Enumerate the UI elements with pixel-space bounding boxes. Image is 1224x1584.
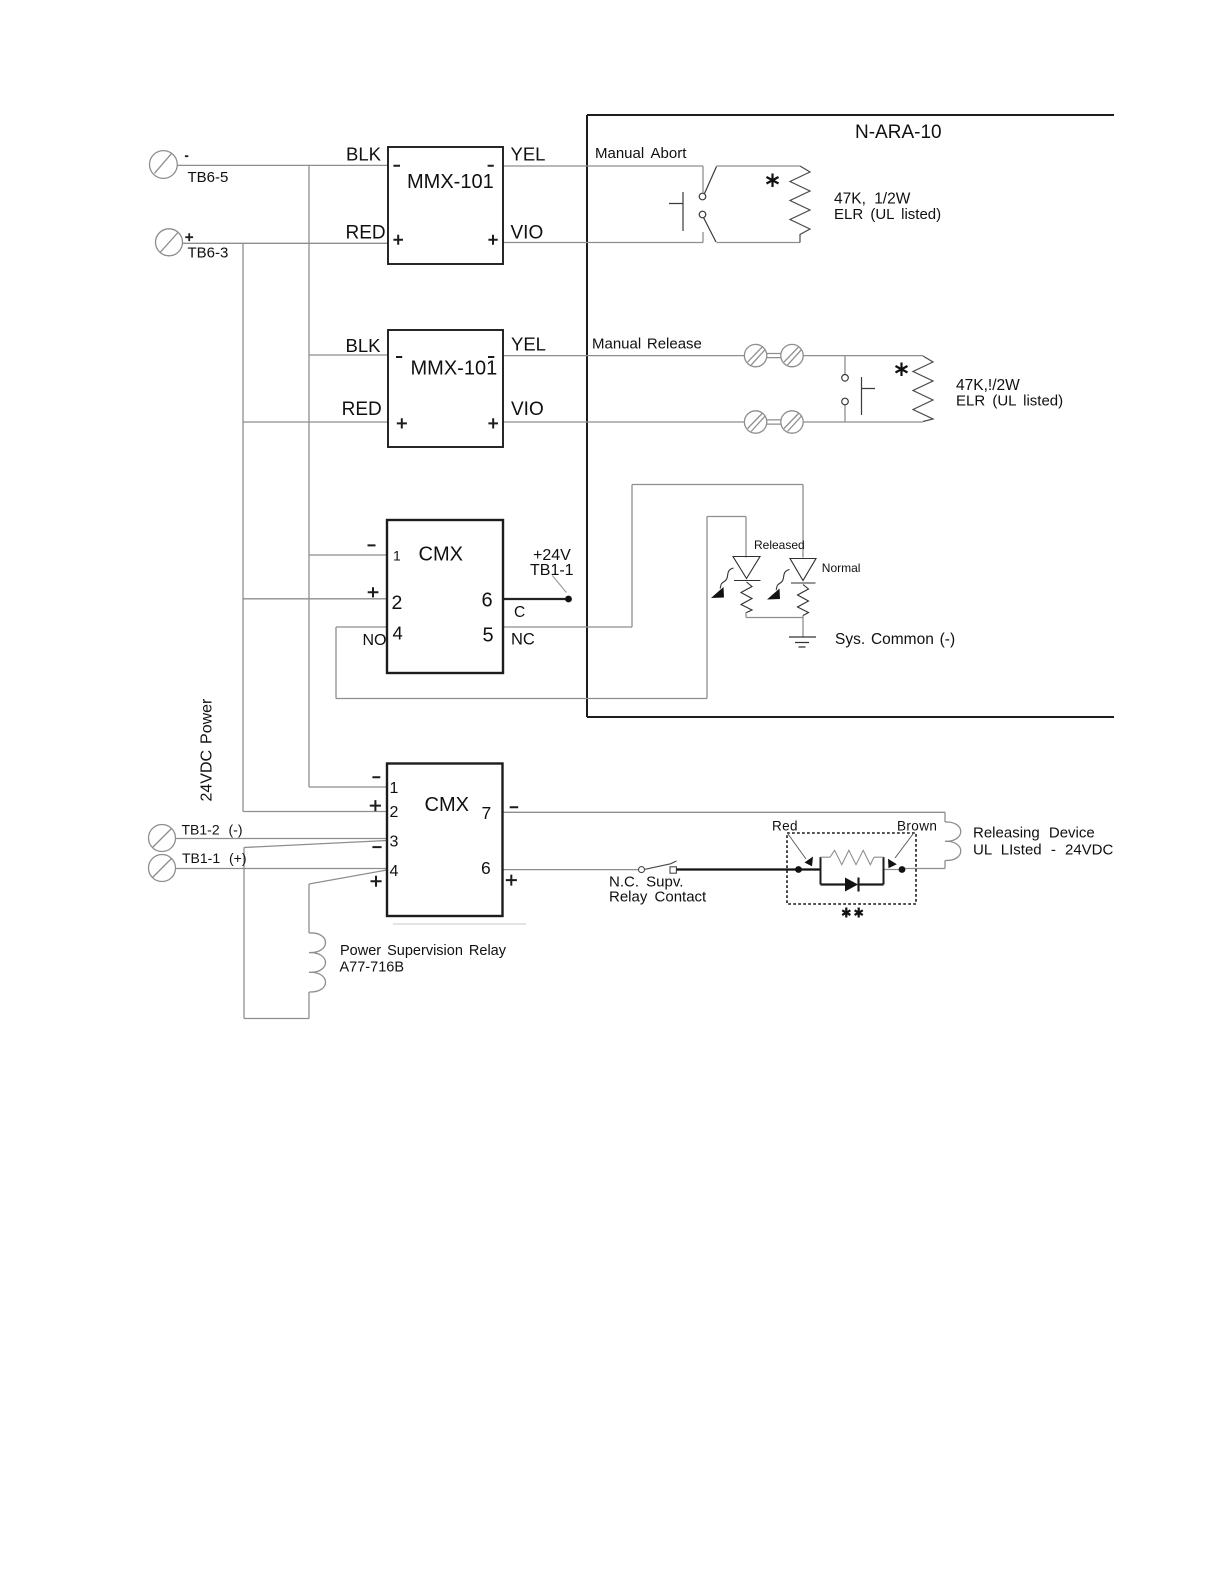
svg-text:Red: Red <box>772 819 798 834</box>
svg-text:RED: RED <box>342 399 382 420</box>
svg-text:A77-716B: A77-716B <box>340 959 405 975</box>
svg-text:MMX-101: MMX-101 <box>411 358 498 380</box>
svg-text:5: 5 <box>483 625 494 647</box>
svg-text:VIO: VIO <box>511 223 544 244</box>
svg-text:TB1-1 (+): TB1-1 (+) <box>182 850 247 866</box>
svg-text:CMX: CMX <box>425 794 469 816</box>
svg-text:6: 6 <box>482 590 493 612</box>
svg-text:Power Supervision Relay: Power Supervision Relay <box>340 943 507 959</box>
svg-text:N-ARA-10: N-ARA-10 <box>855 122 942 143</box>
svg-text:1: 1 <box>390 780 399 797</box>
svg-text:47K, 1/2W: 47K, 1/2W <box>834 191 911 208</box>
svg-text:TB1-2 (-): TB1-2 (-) <box>182 821 243 837</box>
svg-text:47K,!/2W: 47K,!/2W <box>956 377 1020 394</box>
svg-text:2: 2 <box>390 804 399 821</box>
svg-text:BLK: BLK <box>346 335 382 356</box>
svg-text:TB6-5: TB6-5 <box>188 169 229 186</box>
svg-text:NC: NC <box>511 631 535 649</box>
svg-text:Releasing Device: Releasing Device <box>973 825 1095 842</box>
svg-text:TB6-3: TB6-3 <box>188 245 229 262</box>
svg-text:MMX-101: MMX-101 <box>407 171 494 193</box>
svg-text:Relay Contact: Relay Contact <box>609 889 707 906</box>
svg-text:TB1-1: TB1-1 <box>530 562 574 579</box>
svg-text:YEL: YEL <box>511 334 546 355</box>
svg-text:ELR (UL listed): ELR (UL listed) <box>834 206 941 223</box>
svg-text:4: 4 <box>390 863 399 880</box>
svg-text:Manual Release: Manual Release <box>592 336 702 353</box>
svg-text:YEL: YEL <box>511 143 546 164</box>
svg-text:CMX: CMX <box>419 544 463 566</box>
svg-text:6: 6 <box>481 858 491 878</box>
svg-text:Brown: Brown <box>897 819 937 834</box>
svg-text:2: 2 <box>392 592 403 614</box>
svg-text:Released: Released <box>754 538 805 552</box>
svg-text:24VDC Power: 24VDC Power <box>199 698 216 802</box>
svg-text:VIO: VIO <box>511 399 544 420</box>
svg-text:ELR (UL listed): ELR (UL listed) <box>956 393 1063 410</box>
svg-text:Normal: Normal <box>822 561 861 575</box>
svg-text:7: 7 <box>482 803 492 823</box>
svg-text:BLK: BLK <box>346 143 382 164</box>
svg-text:1: 1 <box>393 548 401 564</box>
svg-text:Sys. Common (-): Sys. Common (-) <box>835 631 955 648</box>
svg-text:4: 4 <box>393 623 403 644</box>
svg-text:Manual Abort: Manual Abort <box>595 145 687 162</box>
svg-text:3: 3 <box>390 834 399 851</box>
svg-text:UL LIsted - 24VDC: UL LIsted - 24VDC <box>973 842 1113 859</box>
svg-text:C: C <box>514 604 525 621</box>
svg-text:RED: RED <box>346 223 386 244</box>
svg-text:NO: NO <box>363 632 387 649</box>
